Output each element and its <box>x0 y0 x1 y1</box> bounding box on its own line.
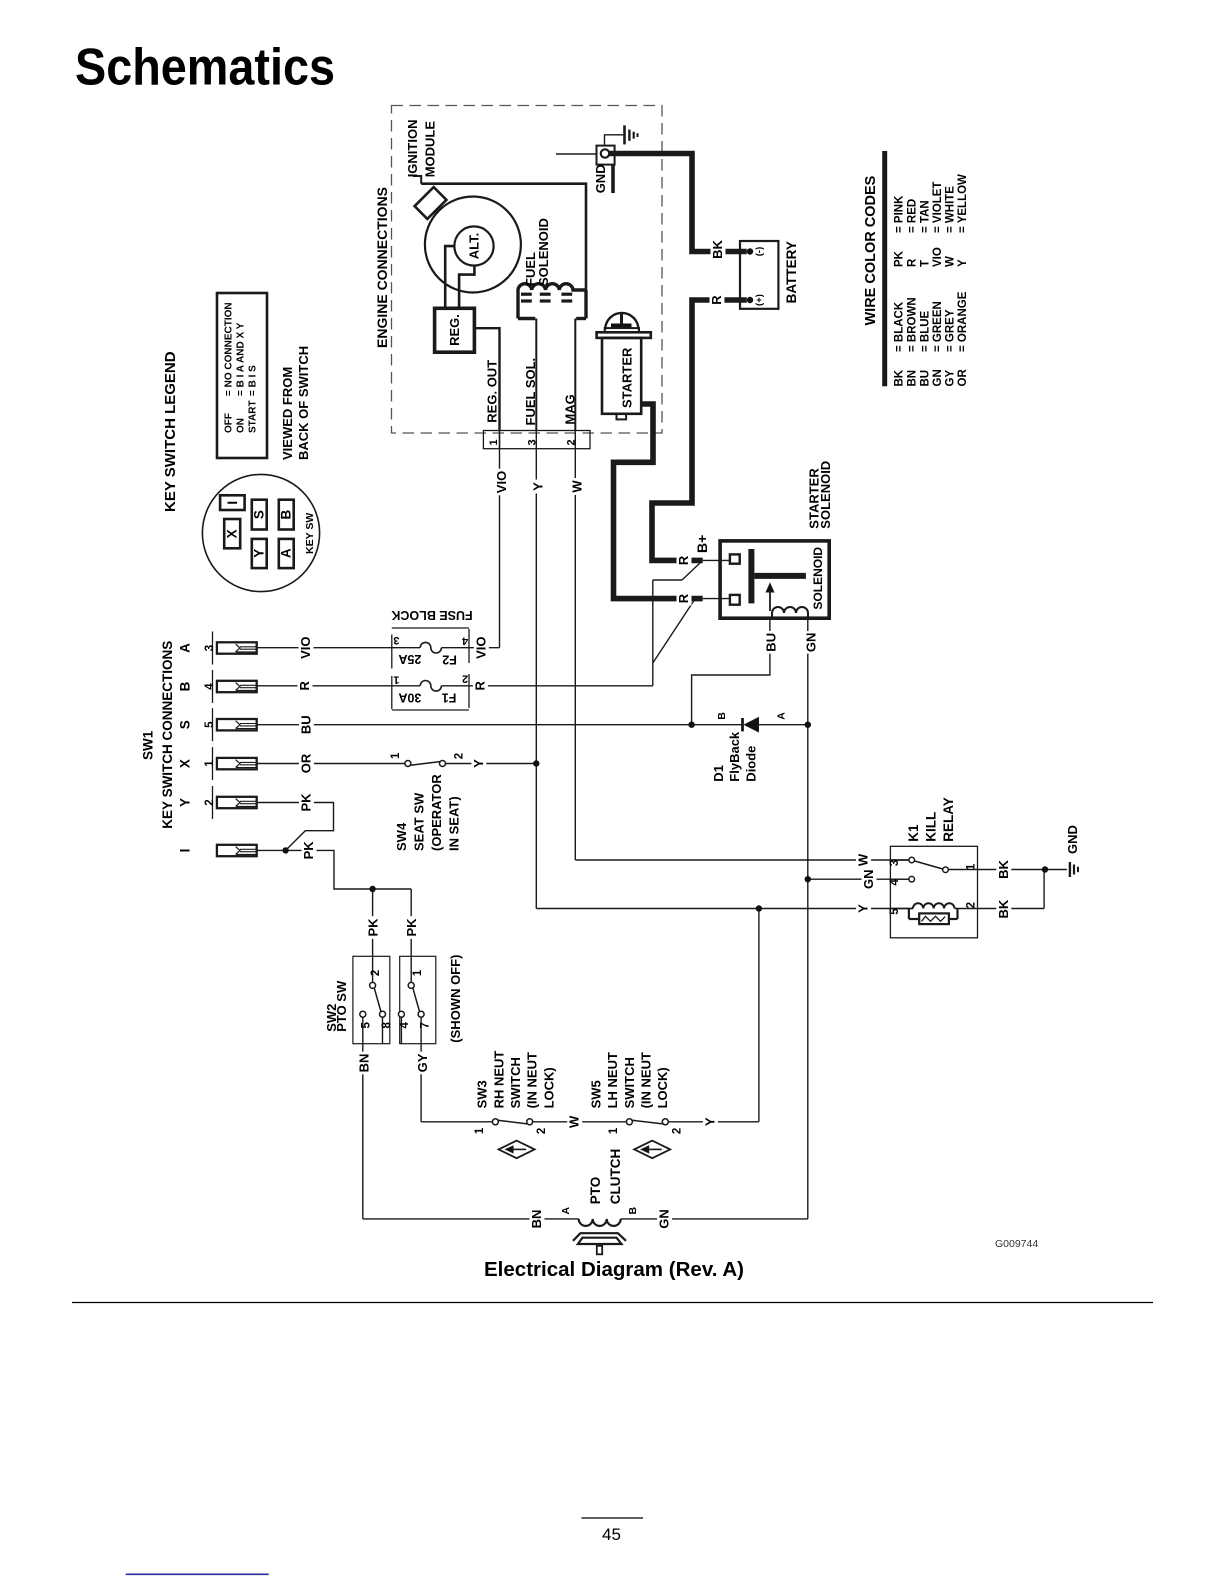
svg-text:BK: BK <box>996 899 1011 918</box>
svg-text:WIRE COLOR CODES: WIRE COLOR CODES <box>863 175 879 325</box>
svg-text:A: A <box>178 643 193 653</box>
svg-text:K1: K1 <box>906 824 921 842</box>
svg-text:B: B <box>279 509 294 519</box>
svg-text:(SHOWN OFF): (SHOWN OFF) <box>448 955 463 1043</box>
svg-text:Y: Y <box>178 798 193 807</box>
svg-text:1: 1 <box>608 1127 620 1134</box>
svg-text:A: A <box>560 1206 572 1214</box>
svg-text:2: 2 <box>966 902 978 908</box>
svg-text:VIEWED FROM: VIEWED FROM <box>280 367 295 460</box>
svg-text:GY: GY <box>945 370 957 387</box>
svg-text:PK: PK <box>404 918 419 937</box>
svg-text:REG. OUT: REG. OUT <box>485 360 500 423</box>
svg-text:= B I A AND X Y: = B I A AND X Y <box>236 322 247 396</box>
svg-text:GN: GN <box>932 369 944 386</box>
svg-text:X: X <box>178 759 193 768</box>
svg-text:T: T <box>920 260 932 267</box>
svg-text:2: 2 <box>370 970 382 976</box>
svg-text:FlyBack: FlyBack <box>727 731 742 782</box>
svg-text:S: S <box>252 510 267 519</box>
svg-text:LOCK): LOCK) <box>541 1067 556 1108</box>
svg-text:GND: GND <box>1065 825 1080 854</box>
svg-text:IN SEAT): IN SEAT) <box>447 796 462 851</box>
svg-text:45: 45 <box>602 1525 621 1544</box>
svg-text:= BLACK: = BLACK <box>894 301 906 352</box>
svg-text:A: A <box>776 712 788 720</box>
svg-text:SW5: SW5 <box>589 1080 604 1108</box>
svg-text:B+: B+ <box>694 535 710 553</box>
svg-text:Diode: Diode <box>744 746 759 782</box>
svg-text:1: 1 <box>488 439 500 445</box>
svg-text:VIO: VIO <box>494 471 509 493</box>
svg-text:5: 5 <box>360 1022 372 1029</box>
svg-text:X: X <box>225 529 240 538</box>
svg-text:(IN NEUT: (IN NEUT <box>639 1052 654 1108</box>
svg-text:SW3: SW3 <box>475 1080 490 1108</box>
svg-text:= PINK: = PINK <box>894 195 906 233</box>
svg-text:SW4: SW4 <box>394 822 409 851</box>
svg-text:PK: PK <box>298 793 313 812</box>
svg-text:25A: 25A <box>398 652 421 666</box>
svg-text:RH NEUT: RH NEUT <box>491 1051 506 1109</box>
svg-text:PK: PK <box>301 841 316 860</box>
svg-text:B: B <box>178 681 193 691</box>
svg-text:Y: Y <box>957 259 969 267</box>
svg-text:BN: BN <box>357 1054 372 1073</box>
svg-text:= TAN: = TAN <box>920 200 932 233</box>
svg-text:= WHITE: = WHITE <box>945 186 957 233</box>
svg-text:SWITCH: SWITCH <box>508 1057 523 1108</box>
svg-text:W: W <box>570 480 585 493</box>
svg-text:3: 3 <box>204 645 216 651</box>
svg-text:R: R <box>907 258 919 267</box>
svg-text:Electrical Diagram (Rev. A): Electrical Diagram (Rev. A) <box>484 1258 744 1281</box>
svg-text:W: W <box>567 1115 582 1128</box>
svg-text:PK: PK <box>366 918 381 937</box>
svg-text:Y: Y <box>702 1117 717 1126</box>
svg-text:2: 2 <box>536 1128 548 1134</box>
svg-text:2: 2 <box>204 799 216 805</box>
svg-text:G009744: G009744 <box>995 1238 1038 1250</box>
svg-text:GN: GN <box>657 1209 672 1229</box>
svg-text:R: R <box>472 680 487 690</box>
svg-text:SWITCH: SWITCH <box>622 1057 637 1108</box>
svg-text:OR: OR <box>957 369 969 387</box>
svg-text:FUEL SOL.: FUEL SOL. <box>523 358 538 426</box>
svg-text:PK: PK <box>894 250 906 267</box>
svg-text:= GREY: = GREY <box>945 309 957 352</box>
svg-text:= BLUE: = BLUE <box>920 310 932 352</box>
svg-text:SOLENOID: SOLENOID <box>818 461 833 529</box>
svg-text:1: 1 <box>412 969 424 976</box>
svg-text:KEY SWITCH CONNECTIONS: KEY SWITCH CONNECTIONS <box>160 641 175 829</box>
svg-text:BU: BU <box>920 370 932 387</box>
svg-text:A: A <box>279 548 294 558</box>
svg-text:D1: D1 <box>711 765 726 782</box>
svg-text:= ORANGE: = ORANGE <box>957 291 969 352</box>
svg-text:4: 4 <box>889 879 901 886</box>
svg-text:4: 4 <box>204 683 216 690</box>
svg-text:BN: BN <box>529 1210 544 1229</box>
svg-text:GND: GND <box>593 164 608 193</box>
svg-text:Y: Y <box>471 759 486 768</box>
svg-text:BU: BU <box>298 715 313 734</box>
svg-text:4: 4 <box>399 1022 411 1029</box>
svg-text:Y: Y <box>252 549 267 558</box>
svg-text:B: B <box>627 1206 639 1214</box>
svg-text:30A: 30A <box>398 690 421 704</box>
svg-text:2: 2 <box>672 1128 684 1134</box>
svg-text:4: 4 <box>461 635 468 647</box>
svg-text:W: W <box>856 853 871 866</box>
svg-text:W: W <box>945 256 957 267</box>
svg-text:SOLENOID: SOLENOID <box>811 547 825 610</box>
svg-text:I: I <box>225 501 240 505</box>
svg-text:SW1: SW1 <box>141 730 156 760</box>
svg-text:BK: BK <box>894 369 906 386</box>
svg-text:3: 3 <box>527 439 539 445</box>
svg-text:(-): (-) <box>754 247 765 257</box>
svg-text:VIO: VIO <box>473 636 488 658</box>
svg-text:PTO: PTO <box>588 1177 603 1205</box>
svg-text:KEY SW: KEY SW <box>304 513 316 554</box>
svg-text:= VIOLET: = VIOLET <box>932 182 944 233</box>
svg-text:VIO: VIO <box>298 636 313 658</box>
svg-text:3: 3 <box>393 634 399 646</box>
svg-text:KILL: KILL <box>924 812 939 842</box>
svg-text:PTO SW: PTO SW <box>334 980 349 1032</box>
svg-text:BU: BU <box>764 633 779 652</box>
svg-text:REG.: REG. <box>447 314 462 346</box>
svg-text:= YELLOW: = YELLOW <box>957 174 969 233</box>
svg-text:BN: BN <box>907 370 919 387</box>
svg-text:SEAT SW: SEAT SW <box>412 792 427 851</box>
svg-text:7: 7 <box>419 1022 431 1028</box>
svg-text:BATTERY: BATTERY <box>784 241 799 303</box>
svg-text:R: R <box>709 295 724 305</box>
svg-text:OFF: OFF <box>224 413 235 433</box>
svg-text:OR: OR <box>298 753 313 773</box>
svg-text:ON: ON <box>236 418 247 433</box>
svg-text:(IN NEUT: (IN NEUT <box>525 1052 540 1108</box>
svg-text:GY: GY <box>415 1053 430 1072</box>
svg-text:KEY SWITCH LEGEND: KEY SWITCH LEGEND <box>162 351 179 512</box>
svg-text:ENGINE CONNECTIONS: ENGINE CONNECTIONS <box>374 187 390 348</box>
svg-text:ALT.: ALT. <box>467 233 482 259</box>
svg-text:BK: BK <box>996 860 1011 879</box>
svg-text:STARTER: STARTER <box>620 347 635 408</box>
svg-text:8: 8 <box>381 1022 393 1029</box>
svg-text:Y: Y <box>531 482 546 491</box>
svg-text:F2: F2 <box>442 652 457 666</box>
svg-text:GN: GN <box>804 633 819 653</box>
svg-text:= RED: = RED <box>907 199 919 233</box>
svg-text:= BROWN: = BROWN <box>907 297 919 352</box>
svg-text:MODULE: MODULE <box>423 121 438 178</box>
svg-text:3: 3 <box>889 860 901 866</box>
svg-text:= B I S: = B I S <box>248 365 259 396</box>
svg-text:1: 1 <box>966 863 978 870</box>
svg-text:F1: F1 <box>442 691 457 705</box>
svg-text:(OPERATOR: (OPERATOR <box>429 774 444 851</box>
svg-text:MAG: MAG <box>563 394 578 424</box>
svg-text:I: I <box>178 849 193 853</box>
svg-text:1: 1 <box>393 674 399 686</box>
svg-text:2: 2 <box>566 439 578 445</box>
svg-text:1: 1 <box>204 760 216 767</box>
svg-text:LOCK): LOCK) <box>655 1067 670 1108</box>
svg-text:= NO CONNECTION: = NO CONNECTION <box>224 302 235 396</box>
svg-text:BK: BK <box>710 240 725 259</box>
svg-text:LH NEUT: LH NEUT <box>605 1052 620 1108</box>
svg-text:BACK OF SWITCH: BACK OF SWITCH <box>296 346 311 460</box>
svg-text:Schematics: Schematics <box>75 39 335 97</box>
svg-text:5: 5 <box>204 721 216 728</box>
svg-text:R: R <box>297 680 312 690</box>
svg-text:START: START <box>248 400 259 433</box>
svg-text:2: 2 <box>462 673 468 685</box>
svg-text:2: 2 <box>453 753 465 759</box>
svg-text:1: 1 <box>474 1127 486 1134</box>
svg-text:IGNITION: IGNITION <box>405 120 420 178</box>
svg-text:R: R <box>676 593 691 603</box>
svg-text:Y: Y <box>856 904 871 913</box>
svg-text:S: S <box>178 720 193 729</box>
svg-text:5: 5 <box>889 908 901 915</box>
svg-text:FUSE BLOCK: FUSE BLOCK <box>391 608 472 622</box>
svg-text:CLUTCH: CLUTCH <box>608 1149 623 1205</box>
svg-text:R: R <box>676 555 691 565</box>
svg-text:(+): (+) <box>754 294 765 306</box>
svg-text:GN: GN <box>861 869 876 889</box>
svg-text:RELAY: RELAY <box>941 797 956 842</box>
svg-text:SOLENOID: SOLENOID <box>536 218 551 286</box>
svg-text:1: 1 <box>390 752 402 759</box>
svg-text:= GREEN: = GREEN <box>932 301 944 352</box>
svg-text:B: B <box>716 712 728 720</box>
svg-text:VIO: VIO <box>932 247 944 267</box>
